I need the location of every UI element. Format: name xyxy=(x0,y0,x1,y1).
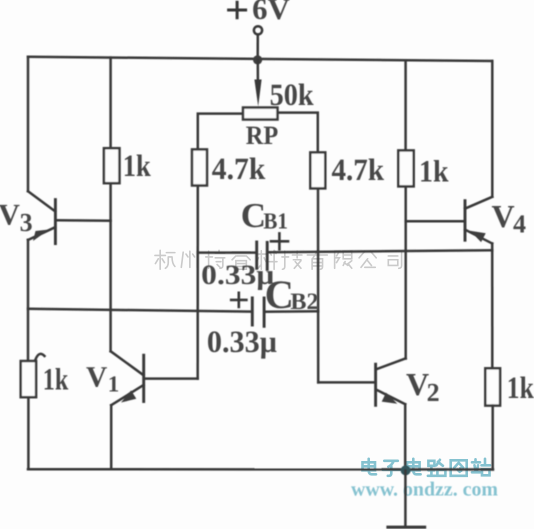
svg-text:2: 2 xyxy=(427,378,440,407)
wire 1k-right bottom to V2 collector xyxy=(404,186,407,358)
transistor V4 base bar xyxy=(464,201,467,241)
transistor V1 emitter arrow xyxy=(121,390,136,402)
resistor R 1k bottom-left body xyxy=(21,361,36,397)
transistor V1 base lead xyxy=(145,377,198,380)
wire pot right to 4.7k column xyxy=(278,113,318,153)
wire supply terminal drop xyxy=(256,35,259,60)
right rail upper segment xyxy=(491,61,494,197)
transistor V3 base bar xyxy=(54,200,57,244)
svg-text:1k: 1k xyxy=(43,362,69,397)
capacitor CB2 right plate xyxy=(263,298,266,326)
wire V2 emitter down xyxy=(404,404,407,470)
svg-text:RP: RP xyxy=(246,120,278,150)
svg-text:www. ondzz. com: www. ondzz. com xyxy=(351,479,498,501)
wire 4.7k-right bottom to V2 base xyxy=(317,188,320,382)
wire 1k-right column top xyxy=(404,60,407,150)
transistor V1 emitter diagonal xyxy=(111,385,143,405)
capacitor CB2 left wire xyxy=(28,309,251,312)
capacitor CB2 plus sign xyxy=(231,293,246,307)
svg-text:1k: 1k xyxy=(507,370,534,405)
wire 4.7k-left bottom to V1 base xyxy=(196,186,199,379)
transistor V1 base bar xyxy=(142,355,145,401)
plus sign of +6V xyxy=(229,2,246,17)
potentiometer RP wiper shaft xyxy=(257,60,260,88)
ground bar xyxy=(388,526,425,529)
transistor V3 emitter diagonal xyxy=(28,227,55,240)
wire 1k-left column top xyxy=(109,58,112,149)
svg-text:V: V xyxy=(492,198,515,234)
capacitor CB1 left wire xyxy=(198,251,256,254)
potentiometer RP body xyxy=(243,108,278,120)
transistor V2 collector diagonal xyxy=(377,358,406,369)
capacitor CB1 right plate xyxy=(266,242,269,269)
wire to ground xyxy=(404,471,407,527)
svg-text:1k: 1k xyxy=(123,148,152,183)
transistor V3 collector diagonal xyxy=(28,191,55,211)
stray arc mark xyxy=(36,354,45,360)
resistor R 1k mid-right body xyxy=(398,150,413,186)
svg-text:50k: 50k xyxy=(270,77,315,112)
transistor V3 emitter arrow xyxy=(33,230,49,242)
svg-text:C: C xyxy=(241,196,266,235)
transistor V4 emitter arrow xyxy=(470,231,486,242)
left rail upper segment xyxy=(27,57,30,191)
wire V1 emitter down xyxy=(110,405,113,469)
resistor R 1k bottom-right body xyxy=(485,368,500,405)
svg-text:B2: B2 xyxy=(290,289,318,315)
resistor R 1k mid-left body xyxy=(104,148,120,183)
transistor V1 collector diagonal xyxy=(111,351,144,375)
transistor V2 base lead xyxy=(318,381,374,384)
bottom rail xyxy=(28,468,493,471)
capacitor CB1 right wire to V4 emitter rail xyxy=(269,250,493,252)
transistor V2 emitter arrow xyxy=(382,393,398,404)
wire 1k-left column bottom to V1 collector xyxy=(109,183,112,351)
junction dot top rail xyxy=(253,55,262,64)
capacitor CB1 plus sign xyxy=(271,233,288,249)
svg-text:1k: 1k xyxy=(419,154,449,189)
right rail lower segment xyxy=(491,406,494,470)
capacitor CB2 right wire xyxy=(266,310,319,313)
svg-text:B1: B1 xyxy=(263,209,288,234)
svg-text:3: 3 xyxy=(20,208,33,237)
capacitor CB1 left plate xyxy=(255,242,258,268)
resistor R 4.7k right body xyxy=(310,152,325,188)
svg-text:1: 1 xyxy=(108,371,120,396)
svg-text:0.33μ: 0.33μ xyxy=(207,324,277,359)
junction dot bottom rail xyxy=(401,465,411,475)
capacitor CB2 left plate xyxy=(251,298,254,325)
left rail lower segment xyxy=(27,397,30,469)
svg-text:6V: 6V xyxy=(252,0,290,26)
svg-text:4.7k: 4.7k xyxy=(332,152,385,187)
svg-text:V: V xyxy=(86,361,107,393)
potentiometer RP wiper arrowhead xyxy=(254,80,261,107)
svg-text:4.7k: 4.7k xyxy=(212,151,266,186)
right rail emitter segment xyxy=(491,244,494,369)
svg-text:4: 4 xyxy=(513,209,526,238)
transistor V4 base lead xyxy=(406,220,464,223)
transistor V4 emitter diagonal xyxy=(465,230,492,244)
transistor V2 emitter diagonal xyxy=(377,390,405,404)
watermark blue site logo xyxy=(363,459,491,476)
watermark gray company text xyxy=(155,250,402,269)
transistor V2 base bar xyxy=(374,364,377,405)
resistor R 4.7k left body xyxy=(192,149,207,185)
transistor V3 base lead xyxy=(57,219,111,222)
top supply rail xyxy=(28,57,492,61)
terminal circle +6V xyxy=(254,26,262,34)
svg-text:0.33μ: 0.33μ xyxy=(201,260,274,291)
svg-text:V: V xyxy=(0,199,20,232)
left rail mid segment xyxy=(27,240,30,361)
transistor V4 collector diagonal xyxy=(465,197,492,209)
wire pot left to 4.7k column xyxy=(198,114,243,150)
